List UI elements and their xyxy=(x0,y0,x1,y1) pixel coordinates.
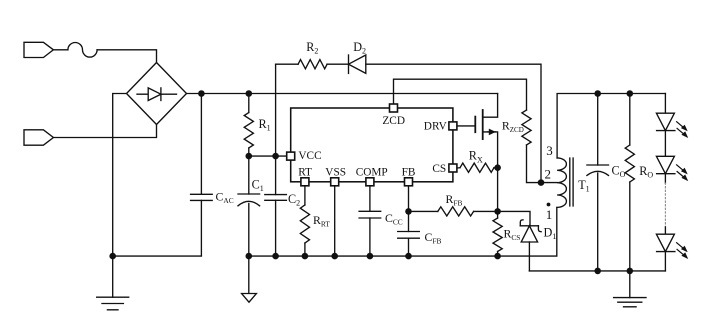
node xyxy=(246,153,253,160)
dashed wire (more LEDs) xyxy=(664,183,666,227)
pin RT xyxy=(301,178,309,186)
node xyxy=(246,253,253,260)
resistor RO xyxy=(625,94,634,271)
label T1 xyxy=(578,178,589,194)
resistor RX xyxy=(457,163,497,172)
node xyxy=(494,208,501,215)
svg-text:FB: FB xyxy=(402,166,416,178)
wire xyxy=(113,255,202,257)
earth ground xyxy=(97,256,129,310)
label CAC xyxy=(216,190,234,206)
svg-text:COMP: COMP xyxy=(356,166,388,178)
label CO xyxy=(612,164,626,180)
wire xyxy=(664,227,666,234)
svg-text:CS: CS xyxy=(432,163,446,175)
wire xyxy=(664,131,666,157)
label C1 xyxy=(252,177,264,193)
svg-text:D1: D1 xyxy=(544,226,557,242)
node xyxy=(405,253,412,260)
svg-text:CCC: CCC xyxy=(385,211,403,227)
node xyxy=(302,253,309,260)
bridge diode symbol xyxy=(137,88,177,101)
wire xyxy=(53,125,156,138)
pin ZCD xyxy=(390,104,398,112)
node xyxy=(272,253,279,260)
label RCS xyxy=(504,227,521,243)
svg-text:D2: D2 xyxy=(353,40,366,56)
LED D5 xyxy=(656,234,688,259)
label COMP xyxy=(356,166,388,178)
capacitor C1 (polarized) xyxy=(238,156,260,256)
label pin 1 xyxy=(546,207,553,222)
resistor R1 xyxy=(244,94,253,157)
label VSS xyxy=(325,166,346,178)
node xyxy=(627,90,634,97)
capacitor C2 xyxy=(265,156,287,256)
pin VSS xyxy=(331,178,339,186)
capacitor CO (polarized) xyxy=(587,94,609,271)
svg-text:RFB: RFB xyxy=(446,192,463,208)
AC plug J2 (neutral) xyxy=(24,130,53,145)
node xyxy=(627,268,634,275)
svg-text:R2: R2 xyxy=(306,40,318,56)
label R2 xyxy=(306,40,318,56)
wire xyxy=(249,155,287,157)
pin COMP xyxy=(366,178,374,186)
label DRV xyxy=(424,121,448,133)
earth ground (output) xyxy=(614,271,646,307)
label VCC xyxy=(298,150,321,162)
label ZCD xyxy=(382,115,405,127)
transformer T1 winding xyxy=(557,158,566,208)
wire xyxy=(664,94,666,114)
node (aux tap) xyxy=(538,179,545,186)
pin FB xyxy=(405,178,413,186)
node xyxy=(367,253,374,260)
wire xyxy=(366,64,541,182)
svg-text:C2: C2 xyxy=(288,192,300,208)
polarity dot xyxy=(547,203,551,207)
wire (ZCD branch) xyxy=(394,79,527,110)
wire xyxy=(113,94,127,256)
label pin 3 xyxy=(546,143,553,158)
wire xyxy=(664,252,666,271)
bridge rectifier BR1 xyxy=(127,63,187,125)
svg-text:1: 1 xyxy=(546,207,553,222)
svg-text:RX: RX xyxy=(469,149,483,165)
svg-text:RRT: RRT xyxy=(313,213,330,229)
label C2 xyxy=(288,192,300,208)
svg-text:3: 3 xyxy=(546,143,553,158)
capacitor CAC xyxy=(191,94,213,256)
label CCC xyxy=(385,211,403,227)
node xyxy=(272,153,279,160)
pin DRV xyxy=(449,122,457,130)
capacitor CCC xyxy=(359,186,381,256)
wire xyxy=(408,186,410,211)
wire xyxy=(474,210,498,212)
wire (primary common rail) xyxy=(249,207,557,256)
wire xyxy=(327,63,348,65)
wire xyxy=(497,168,499,212)
label pin 2 xyxy=(545,166,552,181)
node xyxy=(494,253,501,260)
wire (rectified rail) xyxy=(187,93,498,95)
pin VCC xyxy=(287,152,295,160)
node xyxy=(198,90,205,97)
LED D4 xyxy=(656,156,688,181)
wire (gate) xyxy=(457,125,475,127)
AC plug J1 (line) xyxy=(24,42,53,57)
transistor Q1 (MOSFET) xyxy=(475,94,497,168)
wire xyxy=(498,211,530,225)
svg-text:CO: CO xyxy=(612,164,626,180)
label RZCD xyxy=(502,119,524,135)
IC U1 body xyxy=(291,108,453,182)
svg-text:DRV: DRV xyxy=(424,121,448,133)
wire (secondary top rail) xyxy=(557,94,665,158)
label RRT xyxy=(313,213,330,229)
label CFB xyxy=(425,230,442,246)
resistor RZCD xyxy=(522,110,541,183)
svg-text:ZCD: ZCD xyxy=(382,115,405,127)
wire xyxy=(276,63,299,65)
svg-text:RZCD: RZCD xyxy=(502,119,524,135)
svg-text:RCS: RCS xyxy=(504,227,521,243)
resistor RRT xyxy=(300,186,309,256)
label D1 xyxy=(544,226,557,242)
label RT xyxy=(298,166,312,178)
resistor R2 xyxy=(298,60,327,69)
svg-text:R1: R1 xyxy=(259,117,271,133)
wire (secondary bottom rail) xyxy=(529,270,665,272)
diode D1 (zener) xyxy=(520,220,541,271)
svg-text:CAC: CAC xyxy=(216,190,234,206)
wire xyxy=(334,186,336,256)
capacitor CFB xyxy=(398,211,420,256)
signal ground (triangle) xyxy=(242,256,257,302)
node xyxy=(594,268,601,275)
pin CS xyxy=(449,164,457,172)
LED D3 xyxy=(656,113,688,138)
wire xyxy=(541,182,557,184)
label RO xyxy=(639,164,653,180)
svg-text:CFB: CFB xyxy=(425,230,442,246)
node xyxy=(331,253,338,260)
svg-text:T1: T1 xyxy=(578,178,589,194)
resistor RFB xyxy=(438,207,474,216)
wire xyxy=(97,50,156,63)
svg-text:RO: RO xyxy=(639,164,653,180)
node (bridge negative / earth) xyxy=(109,253,116,260)
node xyxy=(246,90,253,97)
label FB xyxy=(402,166,416,178)
label CS xyxy=(432,163,446,175)
wire (R2 branch riser) xyxy=(275,64,277,156)
node xyxy=(405,208,412,215)
label RX xyxy=(469,149,483,165)
label R1 xyxy=(259,117,271,133)
node xyxy=(494,164,501,171)
svg-text:VSS: VSS xyxy=(325,166,346,178)
svg-text:2: 2 xyxy=(545,166,552,181)
diode D2 xyxy=(349,55,366,73)
wire xyxy=(409,210,438,212)
fuse F1 xyxy=(68,43,97,58)
node xyxy=(594,90,601,97)
wire xyxy=(53,49,68,51)
transformer T1 core xyxy=(570,158,573,206)
resistor RCS xyxy=(493,211,502,256)
svg-text:C1: C1 xyxy=(252,177,264,193)
svg-text:RT: RT xyxy=(298,166,312,178)
label D2 xyxy=(353,40,366,56)
label RFB xyxy=(446,192,463,208)
svg-text:VCC: VCC xyxy=(298,150,321,162)
wire xyxy=(664,174,666,183)
